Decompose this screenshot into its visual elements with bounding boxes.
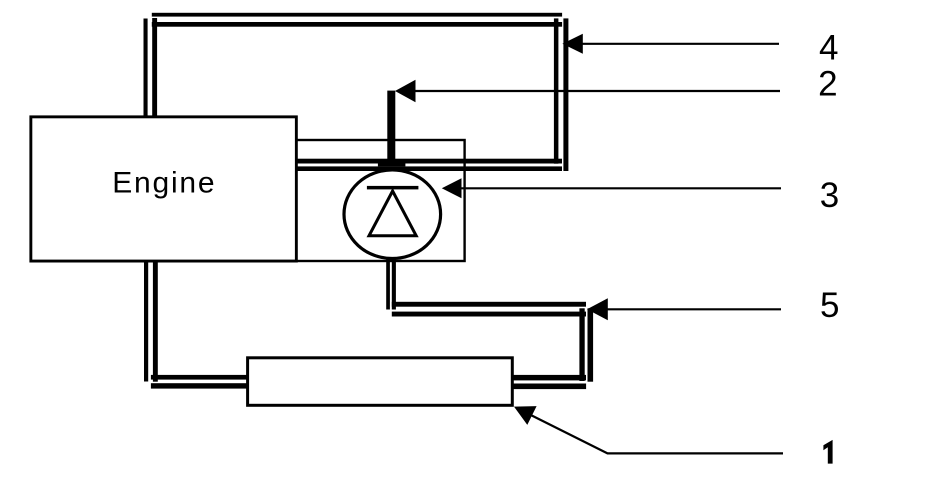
pump triangle	[369, 191, 416, 236]
wire: pipe pump outlet horizontal (upper line)	[392, 302, 586, 307]
arrowhead 3	[442, 178, 462, 198]
wire: pipe engine bottom vertical (outer line)	[144, 260, 148, 382]
svg-text:Engine: Engine	[112, 166, 216, 199]
arrowhead 2	[395, 80, 416, 103]
wire: pipe right vertical (left line)	[554, 18, 559, 163]
wire: coolant pipe, engine top to radiator loop, left vertical (outer line)	[144, 19, 148, 116]
wire: pipe pump outlet vertical (left line)	[386, 260, 390, 310]
pump circle U1	[344, 170, 441, 259]
label 1 (drawn as Arial-style glyph without foot serif)	[823, 440, 832, 464]
radiator box	[248, 358, 513, 406]
engine block box	[31, 117, 297, 261]
wire: pipe left vertical (inner line)	[152, 18, 157, 116]
arrowhead 1	[514, 406, 537, 425]
callout line 5	[607, 308, 781, 310]
pump housing box	[296, 140, 464, 261]
svg-text:4: 4	[819, 29, 838, 68]
wire: pipe to radiator horizontal (lower line)	[151, 383, 249, 388]
callout line 2	[414, 90, 780, 92]
wire: pipe to radiator horizontal (upper line)	[151, 375, 249, 380]
callout line 3	[460, 187, 781, 189]
wire: pipe right vertical (right line)	[563, 18, 568, 171]
svg-text:5: 5	[820, 286, 839, 325]
wire: pipe pump outlet horizontal (lower line)	[392, 312, 586, 317]
callout line 1 (bent)	[522, 411, 783, 454]
wire: pipe right-bottom vertical (right line)	[588, 308, 594, 381]
thick line flare at pump top	[378, 163, 406, 167]
thermostat feed thick line (item 2)	[387, 91, 395, 165]
wire: pipe into pump box horizontal (lower line)	[296, 166, 562, 171]
arrowhead 4	[562, 34, 582, 54]
wire: pipe top horizontal (inner line)	[152, 22, 562, 27]
wire: pipe into radiator right horizontal (upper line)	[513, 375, 586, 381]
wire: pipe pump outlet vertical (right line)	[392, 260, 396, 310]
svg-text:3: 3	[820, 176, 839, 215]
pump top bar	[367, 186, 419, 190]
wire: pipe right-bottom vertical (left line)	[579, 308, 584, 381]
wire: pipe into pump box horizontal (upper line)	[296, 159, 562, 164]
callout line 4	[582, 43, 779, 45]
arrowhead 5	[587, 298, 608, 320]
svg-text:2: 2	[818, 64, 837, 103]
wire: pipe top horizontal (outer line)	[152, 13, 562, 17]
wire: pipe into radiator right horizontal (lower line)	[513, 384, 586, 390]
wire: pipe engine bottom vertical (inner line)	[153, 260, 158, 382]
